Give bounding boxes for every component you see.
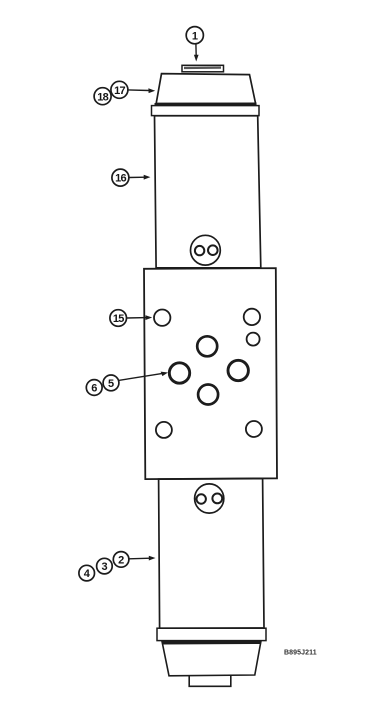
svg-text:4: 4 <box>84 568 91 580</box>
svg-text:1: 1 <box>192 30 198 42</box>
svg-text:18: 18 <box>97 91 108 103</box>
svg-text:2: 2 <box>118 554 124 566</box>
svg-text:17: 17 <box>114 85 125 97</box>
svg-text:6: 6 <box>91 383 97 395</box>
svg-text:15: 15 <box>113 313 124 325</box>
svg-text:16: 16 <box>115 173 126 185</box>
svg-text:3: 3 <box>101 561 107 573</box>
svg-text:B895J211: B895J211 <box>284 650 317 657</box>
svg-text:5: 5 <box>108 378 114 390</box>
